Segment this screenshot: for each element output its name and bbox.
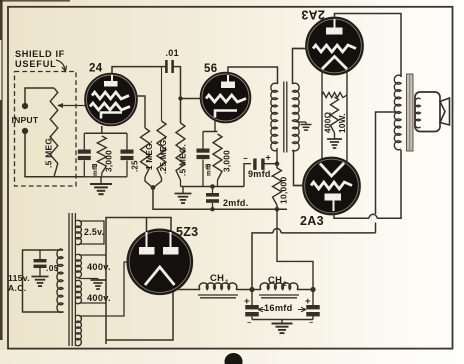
filament legs down — [321, 72, 323, 163]
tube 24 grid (upper zigzag) — [92, 92, 129, 99]
wire 2A3 bottom plate to OT bottom — [334, 213, 369, 218]
resistor .25 MEG — [161, 67, 163, 121]
56 cathode node — [214, 118, 216, 132]
5Z3 output to CH1 — [176, 289, 200, 291]
speaker body — [415, 92, 440, 132]
capacitor .05 — [39, 250, 41, 259]
wire input bottom to ground bus — [25, 131, 84, 177]
svg-text:5Z3: 5Z3 — [176, 225, 198, 239]
ground (.5MEG bottom) — [180, 180, 182, 187]
capacitor .25 — [126, 133, 128, 149]
PT secondary 2.5v — [76, 220, 81, 244]
wire 10,000 down to CH2 out — [277, 205, 313, 290]
OT primary center tap (B+) — [376, 112, 397, 214]
svg-text:.5 MEG.: .5 MEG. — [44, 135, 54, 168]
secondary bottom to lower 2A3 grid — [293, 150, 305, 186]
svg-text:400v.: 400v. — [87, 262, 111, 272]
svg-text:−: − — [309, 320, 313, 327]
ground 400 ohm — [334, 133, 336, 139]
ground symbol (24 cathode) — [100, 177, 102, 184]
svg-text:−: − — [247, 320, 251, 327]
svg-text:400v.: 400v. — [87, 293, 111, 303]
tube 2A3 bottom envelope — [303, 158, 360, 215]
resistor 3,000 (56) — [213, 134, 222, 180]
svg-text:1 MEG.: 1 MEG. — [145, 140, 154, 170]
filter bottom rail — [252, 319, 313, 321]
svg-text:115v.: 115v. — [8, 273, 30, 283]
tube 56 cathode bracket — [215, 111, 237, 118]
capacitor .5 mfd — [83, 133, 85, 149]
svg-text:.5 MEG.: .5 MEG. — [179, 144, 188, 176]
5Z3 plates — [139, 247, 155, 255]
2A3 bottom filament — [320, 163, 344, 176]
svg-text:CH: CH — [210, 272, 224, 283]
secondary CT ground — [297, 121, 307, 123]
2A3 bottom grid — [311, 182, 352, 189]
svg-text:SHIELD IF: SHIELD IF — [15, 49, 65, 59]
potentiometer .5 MEG — [50, 88, 58, 177]
2A3 top plate — [326, 28, 343, 35]
5Z3 wires box — [106, 218, 171, 345]
node wire y186.5 — [181, 186, 245, 188]
tube 24 plate cap — [104, 81, 118, 87]
tube 2A3 top envelope — [306, 18, 363, 75]
PT secondary 400v lower — [76, 280, 81, 303]
OT core (laminated bar) — [407, 74, 414, 151]
pot wiper arrow to 24 grid — [58, 105, 88, 107]
interstage transformer secondary — [293, 83, 300, 151]
115v AC loop — [23, 250, 64, 312]
400v feeds to 5Z3 — [79, 254, 106, 256]
arrow to shield box — [56, 60, 65, 70]
wire node to 9mfd — [244, 164, 251, 187]
wire input top to pot — [25, 88, 54, 106]
svg-text:mfd: mfd — [206, 163, 213, 176]
PT CT ground — [79, 278, 98, 280]
tube 24 grid2 (lower zigzag) — [90, 103, 130, 110]
PT core — [68, 213, 70, 346]
svg-text:3,000: 3,000 — [105, 150, 114, 172]
wire 2A3 bottom grid — [294, 185, 305, 187]
svg-text:INPUT: INPUT — [12, 115, 39, 125]
svg-text:24: 24 — [89, 63, 103, 75]
PT secondary 400v upper — [76, 254, 81, 277]
resistor 3,000 (24 cathode) — [97, 136, 106, 173]
PT primary coil — [57, 249, 63, 312]
B+ line from filter to OT center tap — [281, 232, 376, 234]
speaker voice coil — [415, 98, 421, 128]
capacitor 2 mfd — [210, 184, 215, 189]
tube 56 plate — [221, 82, 235, 89]
scan gutter left edge — [0, 0, 3, 340]
junction 1MEG+.25MEG — [145, 177, 153, 188]
svg-text:400Ω: 400Ω — [324, 111, 333, 133]
svg-text:3,000: 3,000 — [223, 150, 232, 172]
svg-text:16mfd: 16mfd — [264, 303, 293, 313]
svg-text:2A3: 2A3 — [301, 8, 325, 22]
resistor .5 MEG — [176, 123, 185, 180]
shield dashed box — [15, 72, 77, 187]
capacitor 5 mfd (56) — [202, 132, 204, 149]
svg-text:.25: .25 — [131, 160, 140, 172]
svg-text:mfd: mfd — [92, 163, 99, 176]
input terminal top — [22, 103, 28, 109]
svg-text:+: + — [266, 153, 272, 163]
tube 24 cathode bracket — [101, 113, 122, 119]
wire 56 plate to interstage — [228, 67, 278, 84]
svg-text:.05: .05 — [46, 263, 59, 273]
tube 24 envelope — [85, 74, 137, 126]
svg-text:2.5v.: 2.5v. — [84, 227, 104, 237]
24 cathode node wire — [101, 126, 103, 133]
wire 56 grid to .5MEG node — [181, 98, 203, 100]
svg-text:9mfd.: 9mfd. — [248, 169, 274, 179]
tube 5Z3 envelope — [127, 229, 192, 294]
wire 24 top cap to .01 — [112, 67, 166, 74]
2A3 bottom plate — [325, 194, 342, 201]
humdinger resistor horizontal — [322, 92, 347, 97]
5Z3 filament — [145, 267, 175, 285]
svg-text:2A3: 2A3 — [300, 214, 324, 228]
wire 2A3 top plate cap to OT — [335, 14, 402, 78]
filter ground — [281, 320, 283, 324]
tube 56 envelope — [201, 73, 251, 123]
wire 2A3 top grid to interstage — [293, 48, 308, 50]
wire 24 zigzag to 1 MEG — [136, 96, 145, 128]
svg-text:.01: .01 — [166, 48, 179, 58]
svg-text:10,000: 10,000 — [279, 177, 289, 204]
page ornament dot — [225, 353, 243, 364]
svg-text:A.C.: A.C. — [8, 283, 26, 293]
secondary top to 2A3 grid — [293, 49, 308, 85]
speaker cone — [440, 98, 450, 125]
svg-text:10W.: 10W. — [338, 113, 347, 133]
5v winding stubs — [79, 262, 129, 316]
2A3 top filament — [322, 57, 347, 70]
tube 56 grid zigzag — [206, 95, 246, 102]
input terminal bottom — [22, 128, 28, 134]
interstage transformer core — [283, 82, 285, 153]
resistor 1 MEG — [141, 128, 150, 177]
resistor 10,000 — [276, 148, 278, 168]
PT secondary 5v — [76, 315, 81, 345]
ground bus tube24 — [25, 176, 127, 178]
interstage transformer primary — [271, 83, 278, 151]
wire .01 to 56 grid / .5MEG — [173, 67, 181, 123]
wire to mid bus — [153, 188, 287, 210]
svg-text:USEFUL: USEFUL — [15, 59, 57, 69]
svg-text:.25 MEG.: .25 MEG. — [159, 137, 168, 174]
2A3 top grid — [313, 45, 356, 52]
output transformer primary — [394, 75, 401, 150]
svg-text:56: 56 — [204, 63, 217, 75]
resistor 400 ohm 10W — [331, 97, 339, 133]
svg-text:−: − — [243, 154, 248, 163]
svg-text:2mfd.: 2mfd. — [223, 198, 249, 208]
